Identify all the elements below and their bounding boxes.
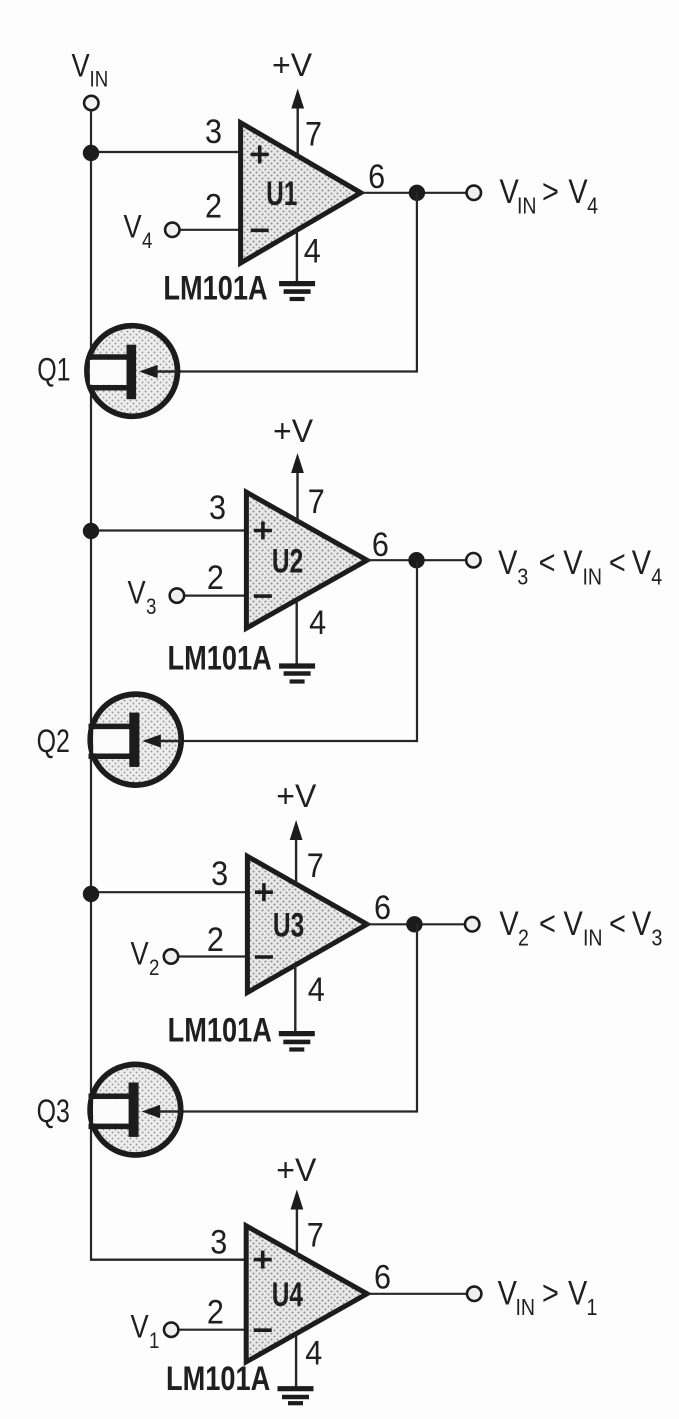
transistor Q1 gate arrowhead (139, 365, 158, 378)
svg-text:<: < (609, 904, 626, 943)
svg-text:LM101A: LM101A (168, 639, 272, 678)
svg-text:LM101A: LM101A (163, 268, 267, 307)
label output condition of U4 (498, 1273, 598, 1320)
wire Q1 gate from op-amp output junction (174, 193, 417, 372)
U1 non-inverting input mark + (251, 145, 269, 163)
transistor Q1 base bar (127, 345, 137, 400)
node junction U3 output (406, 916, 422, 932)
svg-text:Q1: Q1 (37, 353, 70, 389)
node V2 input terminal (164, 949, 178, 963)
svg-text:3: 3 (211, 855, 228, 893)
wire U3 pin 6 output (367, 923, 465, 925)
ground symbol below U3 (279, 1034, 315, 1050)
label VIN (72, 48, 109, 91)
wire U1 pin 6 output (361, 192, 467, 194)
U4 inverting input mark - (254, 1328, 272, 1332)
svg-text:U3: U3 (273, 907, 304, 945)
svg-text:V: V (124, 210, 142, 246)
wire U1 pin 4 to ground (296, 230, 298, 281)
wire U2 pin 4 to ground (296, 600, 298, 664)
transistor Q1 collector lead (89, 354, 129, 360)
svg-text:<: < (609, 543, 626, 582)
label V4 (124, 210, 153, 254)
wire U2 pin 3 input (91, 529, 246, 531)
transistor Q3 body circle (90, 1064, 181, 1155)
svg-text:Q2: Q2 (37, 724, 70, 760)
svg-text:6: 6 (368, 158, 385, 196)
svg-text:7: 7 (307, 846, 324, 884)
wire U3 pin 4 to ground (294, 965, 296, 1031)
svg-text:>: > (542, 1273, 559, 1312)
svg-text:3: 3 (209, 489, 226, 527)
op-amp U1 LM101A triangle (241, 123, 361, 263)
svg-text:V: V (72, 48, 90, 84)
svg-text:1: 1 (149, 1330, 159, 1354)
U3 non-inverting input mark + (255, 883, 273, 901)
svg-text:4: 4 (651, 564, 662, 590)
svg-text:3: 3 (205, 112, 222, 150)
wire VIN rail (vertical, down left side to U4 pin 3) (91, 111, 246, 1260)
svg-text:IN: IN (517, 193, 537, 219)
svg-text:IN: IN (90, 68, 109, 92)
svg-text:6: 6 (374, 888, 391, 926)
svg-text:+V: +V (276, 778, 317, 814)
svg-text:Q3: Q3 (37, 1094, 70, 1130)
node V4 input terminal (165, 223, 179, 237)
wire Q2 gate segment inside circle (158, 740, 181, 742)
svg-text:4: 4 (305, 1334, 322, 1372)
transistor Q3 base bar (129, 1083, 139, 1137)
U2 non-inverting input mark + (254, 522, 272, 540)
svg-text:4: 4 (142, 230, 152, 254)
svg-text:V: V (632, 904, 651, 943)
op-amp U3 LM101A triangle (247, 856, 367, 992)
svg-text:V: V (131, 936, 149, 972)
svg-text:V: V (499, 904, 518, 943)
wire Q1 gate segment inside circle (155, 370, 177, 372)
svg-text:2: 2 (149, 957, 159, 981)
transistor Q3 collector lead (89, 1093, 131, 1099)
power +V arrow into U1 pin 7 (291, 89, 304, 157)
svg-text:V: V (500, 172, 519, 211)
wire Q2 gate from op-amp output junction (177, 561, 417, 741)
node output terminal of U1 (467, 186, 481, 200)
wire U4 pin 2 input (178, 1329, 246, 1331)
svg-text:V: V (632, 543, 651, 582)
transistor Q2 gate arrowhead (142, 734, 161, 747)
wire Q3 gate segment inside circle (158, 1110, 181, 1112)
svg-text:<: < (539, 904, 556, 943)
svg-text:3: 3 (652, 925, 663, 951)
svg-text:U1: U1 (266, 175, 297, 213)
svg-text:7: 7 (305, 115, 322, 153)
svg-text:+V: +V (272, 47, 313, 83)
svg-text:2: 2 (518, 925, 529, 951)
svg-text:IN: IN (516, 1295, 536, 1321)
svg-text:4: 4 (308, 971, 325, 1009)
transistor Q2 body circle (90, 694, 181, 785)
svg-text:3: 3 (210, 1223, 227, 1261)
wire U2 pin 6 output (367, 559, 466, 561)
wire U2 pin 2 input (184, 594, 247, 596)
U4 non-inverting input mark + (254, 1251, 272, 1269)
label V2 (131, 936, 160, 980)
svg-text:LM101A: LM101A (166, 1359, 270, 1398)
wire U3 pin 2 input (178, 955, 247, 957)
transistor Q3 channel clear region (93, 1099, 129, 1123)
svg-text:7: 7 (307, 1216, 324, 1254)
svg-text:2: 2 (207, 1293, 224, 1331)
svg-text:U4: U4 (272, 1276, 304, 1314)
node junction VIN rail / U2 pin 3 (83, 523, 99, 539)
svg-text:V: V (568, 1273, 587, 1312)
svg-text:4: 4 (304, 232, 321, 270)
wire U3 pin 3 input (91, 891, 247, 893)
op-amp U2 LM101A triangle (246, 492, 367, 628)
svg-text:2: 2 (207, 921, 224, 959)
node V1 input terminal (164, 1323, 178, 1337)
svg-text:V: V (128, 575, 146, 611)
node junction VIN rail / U1 pin 3 (83, 145, 99, 161)
svg-text:3: 3 (517, 564, 528, 590)
wire U4 pin 4 to ground (295, 1334, 297, 1387)
label output condition of U3 (499, 904, 662, 951)
svg-text:4: 4 (309, 604, 326, 642)
label V1 (131, 1309, 160, 1353)
svg-text:7: 7 (308, 482, 325, 520)
svg-text:V: V (563, 543, 582, 582)
transistor Q1 channel clear region (90, 360, 127, 385)
svg-text:V: V (498, 1273, 517, 1312)
wire U4 pin 6 output (367, 1293, 467, 1295)
wire U4 pin 3 input (91, 1258, 246, 1260)
svg-text:IN: IN (583, 925, 603, 951)
node output terminal of U3 (465, 917, 479, 931)
svg-text:+V: +V (273, 413, 314, 449)
label output condition of U1 (500, 172, 599, 219)
ground symbol below U1 (279, 284, 315, 299)
power +V arrow into U3 pin 7 (290, 820, 303, 884)
power +V arrow into U4 pin 7 (291, 1190, 304, 1255)
U3 inverting input mark - (255, 955, 273, 959)
wire U1 pin 2 input (179, 229, 240, 231)
svg-text:V: V (131, 1309, 149, 1345)
transistor Q2 base bar (129, 713, 139, 767)
op-amp U4 LM101A triangle (246, 1226, 367, 1362)
svg-text:<: < (539, 543, 556, 582)
transistor Q3 emitter lead (89, 1124, 131, 1130)
node output terminal of U4 (467, 1287, 481, 1301)
wire Q3 gate from op-amp output junction (177, 924, 417, 1111)
transistor Q1 body circle (87, 326, 178, 417)
svg-text:4: 4 (587, 193, 598, 219)
ground symbol below U4 (278, 1389, 314, 1404)
svg-text:IN: IN (583, 564, 603, 590)
wire U1 pin 3 input (91, 151, 241, 153)
svg-text:V: V (568, 172, 587, 211)
svg-text:>: > (542, 172, 559, 211)
node junction VIN rail / U3 pin 3 (83, 886, 99, 902)
svg-text:6: 6 (374, 1258, 391, 1296)
svg-text:2: 2 (205, 187, 222, 225)
ground symbol below U2 (279, 666, 315, 682)
svg-text:2: 2 (207, 559, 224, 597)
svg-text:LM101A: LM101A (168, 1011, 272, 1050)
svg-text:U2: U2 (272, 543, 303, 581)
node V3 input terminal (170, 588, 184, 602)
svg-text:V: V (564, 904, 583, 943)
label V3 (128, 575, 157, 619)
svg-text:1: 1 (587, 1295, 598, 1321)
transistor Q1 emitter lead (89, 385, 129, 391)
transistor Q2 channel clear region (93, 729, 129, 753)
node VIN input terminal (84, 96, 98, 110)
U1 inverting input mark - (251, 229, 269, 233)
node junction U2 output (408, 552, 424, 568)
U2 inverting input mark - (254, 594, 272, 598)
power +V arrow into U2 pin 7 (291, 453, 304, 521)
node output terminal of U2 (466, 553, 480, 567)
node junction U1 output (409, 185, 425, 201)
svg-text:3: 3 (146, 596, 156, 620)
svg-text:V: V (498, 543, 517, 582)
svg-text:+V: +V (276, 1152, 317, 1188)
transistor Q2 collector lead (89, 724, 132, 730)
transistor Q3 gate arrowhead (142, 1105, 161, 1118)
svg-text:6: 6 (372, 526, 389, 564)
transistor Q2 emitter lead (89, 754, 132, 760)
label output condition of U2 (498, 543, 662, 590)
